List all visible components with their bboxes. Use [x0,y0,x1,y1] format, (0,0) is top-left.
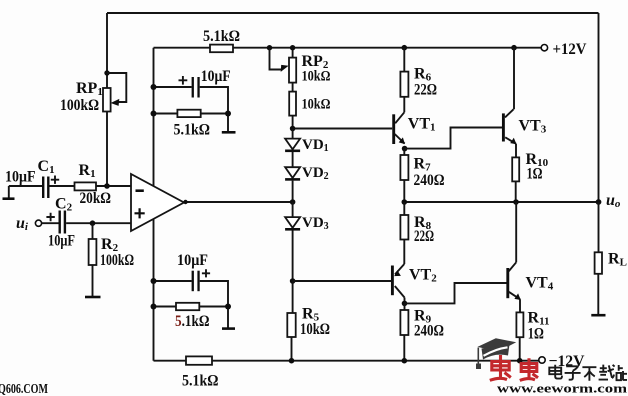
logo chongchong red characters [490,355,538,380]
node R1/RP1/opamp inverting [104,183,110,189]
svg-text:5.1kΩ: 5.1kΩ [174,122,211,139]
node RP2 top on rail [290,45,295,50]
input terminal ui [16,215,42,233]
node diode mid to op-amp [290,199,296,205]
node R5 bottom on rail [289,358,295,364]
resistor 5.1k lower bootstrap [154,303,229,330]
svg-text:22Ω: 22Ω [414,82,437,99]
terminal +12V [541,41,587,58]
node R6 top on rail [402,45,408,51]
resistor R11 1 ohm [516,299,549,361]
node upper bootstrap left res [151,111,157,117]
wire: output line from R7/R8 node to uo [404,201,599,203]
logo text dianzi xiazaizhan [549,365,627,381]
svg-text:10kΩ: 10kΩ [302,97,331,113]
wire: bottom -12V rail [154,360,539,362]
wire: right vertical rail from top wire down to uo node [598,13,600,202]
wire: VT2 base wire [293,280,393,282]
resistor R2 100k [89,220,135,296]
diode VD3 [285,202,329,281]
svg-text:+12V: +12V [553,41,587,58]
diode VD1 [285,129,329,155]
svg-text:240Ω: 240Ω [414,172,445,189]
capacitor 10uF upper bootstrap [154,68,231,114]
svg-text:10kΩ: 10kΩ [300,321,330,338]
resistor RL load [595,202,627,315]
resistor R1 20k [75,162,132,207]
node op-amp output apex [183,200,187,204]
op-amp U1 [131,174,184,231]
resistor R6 22 ohm [400,48,437,99]
wire: VT2 collector to VT4 base [405,283,508,303]
resistor R5 10k [287,281,330,361]
node VT3 collector on rail [511,45,517,51]
node lower bootstrap left cap [151,278,157,284]
wire: op-amp output to diode chain node [184,201,292,203]
ground under RL [591,314,605,317]
node R11 bottom on rail [517,358,523,364]
capacitor C2 10uF [42,196,131,250]
wire: top feedback wire from RP1 to right rail [107,12,599,14]
wire: +12V rail [154,47,542,49]
svg-text:www.eeworm.com: www.eeworm.com [497,382,628,396]
node VT2 collector junction [404,298,406,304]
svg-text:1Ω: 1Ω [528,326,544,343]
resistor R8 22 ohm [400,202,434,264]
wire: left vertical from top wire down to R1 node [106,13,108,186]
capacitor C1 10uF [5,158,75,198]
node lower bootstrap right [225,304,231,310]
resistor R7 240 ohm [400,149,444,202]
node diode chain top [290,126,296,132]
wire: VT1 base wire [293,128,393,130]
potentiometer RP1 100k [60,70,126,114]
node upper bootstrap right [225,111,231,117]
ground mini at C1 input [3,186,15,199]
ground at lower bootstrap [222,307,235,329]
ground at upper bootstrap [222,114,236,133]
potentiometer RP2 10k [267,45,331,92]
svg-text:100kΩ: 100kΩ [100,252,134,269]
wire: VT1 emitter to VT3 base [405,128,504,149]
diode VD2 [285,152,329,202]
svg-text:20kΩ: 20kΩ [80,190,112,207]
resistor 5.1k upper bootstrap [154,110,229,139]
transistor VT3 npn [503,48,546,145]
resistor 5.1k top feedback [203,28,240,52]
node VT1 emitter junction [402,146,408,152]
svg-text:10μF: 10μF [201,68,231,85]
svg-text:1Ω: 1Ω [527,166,543,183]
transistor VT1 npn [394,97,436,144]
capacitor 10uF lower bootstrap [154,252,229,307]
ground under R2 [85,296,101,299]
resistor R10 1 ohm [512,144,548,202]
resistor 5.1k bottom rail [182,356,219,389]
wire: long vertical bus x=153.5 behind op-amp [153,48,155,361]
svg-text:10kΩ: 10kΩ [302,69,331,85]
node uo output [596,192,621,210]
resistor 10k bias [289,92,330,129]
node output line at R7/R8 [402,199,408,205]
svg-text:22Ω: 22Ω [414,228,434,245]
logo graduation cap [476,338,516,369]
svg-text:240Ω: 240Ω [414,323,444,340]
node R9 bottom on rail [402,358,408,364]
svg-text:10μF: 10μF [177,252,208,269]
svg-text:Q606.COM: Q606.COM [0,381,48,396]
svg-text:100kΩ: 100kΩ [60,97,99,114]
svg-text:10μF: 10μF [48,233,75,250]
svg-text:10μF: 10μF [5,169,36,186]
node output line at R10 [513,199,519,205]
terminal -12V [539,353,585,370]
node VD3 bottom / VT2 base [290,278,296,284]
node upper bootstrap left cap [151,84,157,90]
svg-text:5.1kΩ: 5.1kΩ [203,28,240,45]
svg-text:5.1kΩ: 5.1kΩ [175,313,210,330]
svg-text:5.1kΩ: 5.1kΩ [182,373,219,390]
node lower bootstrap left res [151,304,157,310]
transistor VT4 [508,202,554,300]
resistor R9 240 ohm [400,303,444,360]
transistor VT2 pnp [392,264,437,298]
